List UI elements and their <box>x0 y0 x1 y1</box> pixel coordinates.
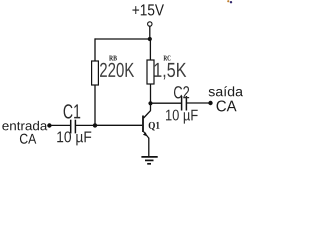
wire RC bottom lead <box>150 84 152 103</box>
wire C2 to output terminal <box>187 102 211 104</box>
node input terminal dot <box>47 123 51 127</box>
node output terminal dot <box>208 101 212 105</box>
wire supply terminal to rail <box>149 26 151 39</box>
label CA out <box>217 100 237 111</box>
capacitor C1 <box>71 120 76 134</box>
artifact speck top right <box>227 0 232 3</box>
label 1,5K <box>154 63 186 80</box>
label RB <box>109 56 117 61</box>
label CA in <box>20 134 36 144</box>
node collector junction <box>148 101 152 105</box>
node supply rail junction <box>148 37 152 41</box>
label 10uF C1 <box>57 131 91 145</box>
resistor RC <box>147 60 154 84</box>
node base junction <box>93 123 97 127</box>
transistor Q1 collector diagonal <box>144 110 151 118</box>
transistor Q1 emitter diagonal with arrow <box>143 132 149 139</box>
capacitor C2 <box>182 96 187 111</box>
transistor Q1 base bar <box>142 116 144 133</box>
wire base lead <box>95 124 143 126</box>
wire collector vertical into transistor <box>150 103 152 110</box>
label 10uF C2 <box>166 110 198 124</box>
ground <box>141 157 157 164</box>
wire top rail <box>95 38 150 40</box>
label entrada <box>2 121 47 130</box>
label C2 <box>174 86 189 98</box>
wire RB top lead <box>94 38 96 61</box>
wire emitter vertical <box>148 138 150 157</box>
wire RB bottom lead <box>94 85 96 125</box>
wire C1 to base junction <box>76 124 95 126</box>
label C1 <box>64 104 81 118</box>
supply terminal circle <box>148 22 152 26</box>
label saida <box>209 86 243 96</box>
resistor RB <box>92 61 99 85</box>
label Q1 <box>149 122 160 131</box>
wire input terminal to C1 <box>49 124 70 126</box>
wire collector to C2 <box>151 102 182 104</box>
label +15V <box>132 4 163 15</box>
wire RC top lead <box>149 39 151 60</box>
label 220K <box>100 63 134 77</box>
label RC <box>163 56 170 61</box>
